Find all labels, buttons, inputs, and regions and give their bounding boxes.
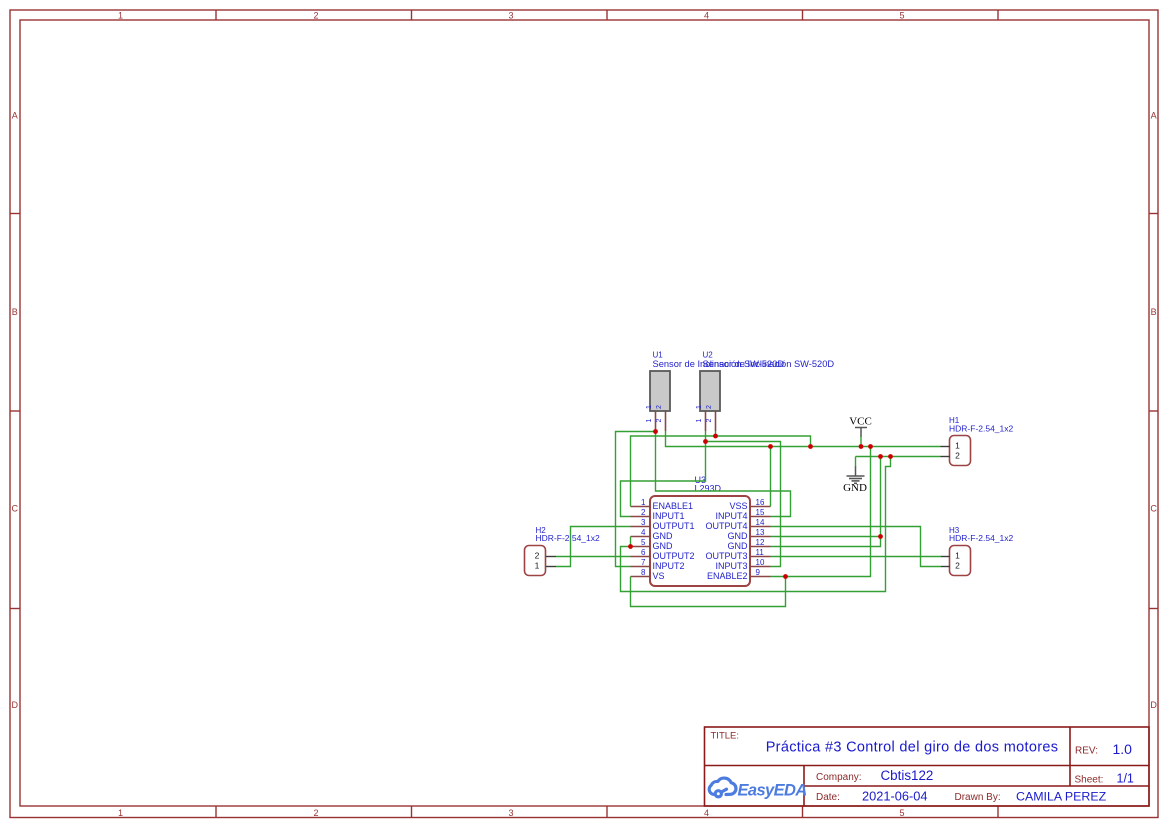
- svg-text:Sensor de Inclinación SW-520D: Sensor de Inclinación SW-520D: [703, 359, 835, 369]
- svg-text:B: B: [1151, 307, 1157, 317]
- H2 pin 1: [535, 561, 556, 571]
- wire GND rail to ground symbol: [855, 457, 857, 467]
- wire U3 OUTPUT4 to H3 pin2: [771, 527, 942, 567]
- op-amp driver IC U3 L293D body: [650, 475, 750, 586]
- svg-text:1: 1: [955, 551, 960, 561]
- svg-text:INPUT2: INPUT2: [653, 561, 685, 571]
- svg-text:OUTPUT1: OUTPUT1: [653, 521, 695, 531]
- svg-text:OUTPUT4: OUTPUT4: [705, 521, 747, 531]
- tilt sensor U2: [700, 351, 834, 412]
- svg-text:1: 1: [696, 405, 703, 409]
- junction GND pin13 tap: [878, 534, 883, 539]
- wire U3 GND pin4 drop: [630, 537, 632, 547]
- U3 pin 9 ENABLE2: [707, 568, 771, 581]
- U1 pin 1: [646, 405, 656, 431]
- U3 pin 7 INPUT2: [631, 558, 685, 571]
- junction GND pin12 riser on GND rail: [878, 454, 883, 459]
- svg-text:16: 16: [756, 498, 765, 507]
- U3 pin 15 INPUT4: [715, 508, 770, 521]
- svg-text:VS: VS: [653, 571, 665, 581]
- svg-text:1/1: 1/1: [1117, 772, 1134, 786]
- svg-text:A: A: [12, 111, 18, 121]
- svg-text:GND: GND: [653, 531, 674, 541]
- svg-text:Date:: Date:: [816, 792, 840, 803]
- U3 pin 12 GND: [728, 538, 771, 551]
- U3 pin 14 OUTPUT4: [705, 518, 770, 531]
- svg-text:C: C: [12, 504, 19, 514]
- U3 pin 13 GND: [728, 528, 771, 541]
- svg-text:5: 5: [899, 808, 904, 818]
- svg-text:7: 7: [641, 558, 646, 567]
- svg-text:4: 4: [704, 10, 709, 20]
- svg-text:HDR-F-2.54_1x2: HDR-F-2.54_1x2: [949, 424, 1014, 434]
- wire U3 ENABLE2 to VCC rail: [771, 447, 871, 577]
- U3 pin 8 VS: [631, 568, 665, 581]
- svg-text:3: 3: [508, 10, 513, 20]
- wire U3 ENABLE1 to U2 pin2 to VCC rail: [631, 436, 811, 507]
- svg-text:5: 5: [641, 538, 646, 547]
- svg-text:Company:: Company:: [816, 772, 862, 783]
- svg-text:Sheet:: Sheet:: [1075, 774, 1104, 785]
- junction GND left branch on GND rail: [888, 454, 893, 459]
- svg-text:2: 2: [313, 808, 318, 818]
- H2 pin 2: [535, 551, 556, 561]
- svg-text:1.0: 1.0: [1113, 741, 1133, 757]
- U2 pin 2: [706, 405, 716, 431]
- svg-text:VCC: VCC: [849, 416, 872, 428]
- svg-text:11: 11: [756, 548, 765, 557]
- svg-text:OUTPUT3: OUTPUT3: [705, 551, 747, 561]
- svg-text:14: 14: [756, 518, 765, 527]
- junction VSS on VCC rail: [768, 444, 773, 449]
- svg-text:1: 1: [535, 561, 540, 571]
- svg-text:Cbtis122: Cbtis122: [881, 768, 934, 783]
- U2 pin 1: [696, 405, 706, 431]
- wire U3 GND pin13 to GND drop: [771, 536, 881, 538]
- svg-text:1: 1: [646, 405, 653, 409]
- wire U2 pin1 to U3 INPUT3: [706, 442, 781, 567]
- junction U2 pin1 node: [703, 439, 708, 444]
- svg-text:C: C: [1150, 504, 1157, 514]
- svg-text:ENABLE2: ENABLE2: [707, 571, 748, 581]
- svg-text:2: 2: [656, 419, 663, 423]
- svg-text:OUTPUT2: OUTPUT2: [653, 551, 695, 561]
- svg-text:2: 2: [656, 405, 663, 409]
- svg-text:2021-06-04: 2021-06-04: [862, 789, 927, 804]
- svg-text:INPUT1: INPUT1: [653, 511, 685, 521]
- svg-text:5: 5: [899, 10, 904, 20]
- wire U2 pin2 stub: [715, 431, 717, 436]
- svg-text:2: 2: [313, 10, 318, 20]
- svg-text:9: 9: [756, 568, 761, 577]
- wire U3 OUTPUT3 to H3 pin1: [771, 556, 942, 558]
- U3 pin 4 GND: [631, 528, 674, 541]
- svg-text:2: 2: [535, 551, 540, 561]
- EasyEDA logo: [709, 778, 736, 797]
- U3 pin 11 OUTPUT3: [705, 548, 770, 561]
- junction U1 pin1 node: [653, 429, 658, 434]
- wire VCC rail: U1 pin2 to H1 pin1: [666, 431, 941, 447]
- junction U3 GND pin5 node: [628, 544, 633, 549]
- svg-text:Drawn By:: Drawn By:: [955, 792, 1001, 803]
- svg-text:GND: GND: [653, 541, 674, 551]
- svg-text:VSS: VSS: [729, 501, 747, 511]
- svg-text:8: 8: [641, 568, 646, 577]
- svg-text:1: 1: [696, 419, 703, 423]
- svg-text:1: 1: [955, 441, 960, 451]
- svg-text:ENABLE1: ENABLE1: [653, 501, 694, 511]
- svg-text:4: 4: [704, 808, 709, 818]
- svg-text:3: 3: [641, 518, 646, 527]
- junction U2 pin2 node: [713, 434, 718, 439]
- svg-text:Práctica #3 Control del giro d: Práctica #3 Control del giro de dos moto…: [766, 740, 1059, 756]
- svg-text:2: 2: [955, 561, 960, 571]
- header H1 HDR-F-2.54_1x2: [949, 416, 1014, 466]
- svg-text:REV:: REV:: [1075, 746, 1098, 757]
- svg-text:1: 1: [118, 10, 123, 20]
- wire U2 pin1 drop: [705, 431, 707, 442]
- H3 pin 2: [941, 561, 960, 571]
- wire U3 OUTPUT2 to H2 pin2: [556, 556, 631, 558]
- U3 pin 10 INPUT3: [715, 558, 770, 571]
- junction ENABLE2 riser on VCC rail: [868, 444, 873, 449]
- svg-text:6: 6: [641, 548, 646, 557]
- svg-text:EasyEDA: EasyEDA: [738, 782, 807, 800]
- U3 pin 2 INPUT1: [631, 508, 685, 521]
- svg-text:L293D: L293D: [695, 484, 722, 494]
- svg-text:D: D: [1150, 700, 1157, 710]
- wire VCC flag stem: [860, 437, 862, 447]
- H3 pin 1: [941, 551, 960, 561]
- svg-text:1: 1: [641, 498, 646, 507]
- wire U2 pin1 to U3 INPUT1: [621, 442, 706, 517]
- svg-text:10: 10: [756, 558, 765, 567]
- svg-text:1: 1: [118, 808, 123, 818]
- power flag VCC: [849, 416, 872, 438]
- wire U3 GND pin12 to GND rail: [771, 457, 881, 547]
- svg-text:2: 2: [955, 451, 960, 461]
- svg-text:TITLE:: TITLE:: [711, 731, 740, 742]
- svg-text:4: 4: [641, 528, 646, 537]
- wire GND rail to H1 pin2: [856, 456, 941, 458]
- header H3 HDR-F-2.54_1x2: [949, 526, 1014, 576]
- U3 pin 1 ENABLE1: [631, 498, 694, 511]
- svg-text:13: 13: [756, 528, 765, 537]
- wire U3 OUTPUT1 to H2 pin1: [556, 527, 631, 567]
- svg-text:HDR-F-2.54_1x2: HDR-F-2.54_1x2: [536, 533, 601, 543]
- U3 pin 6 OUTPUT2: [631, 548, 695, 561]
- U3 pin 16 VSS: [729, 498, 770, 511]
- svg-text:12: 12: [756, 538, 765, 547]
- junction ENABLE1 net on VCC rail: [808, 444, 813, 449]
- svg-text:GND: GND: [843, 482, 867, 494]
- svg-text:INPUT3: INPUT3: [715, 561, 747, 571]
- svg-text:2: 2: [641, 508, 646, 517]
- U3 pin 3 OUTPUT1: [631, 518, 695, 531]
- wire U3 GND pins4-5 to GND rail: [621, 457, 891, 592]
- svg-text:D: D: [12, 700, 19, 710]
- svg-text:2: 2: [706, 405, 713, 409]
- header H2 HDR-F-2.54_1x2: [525, 526, 601, 576]
- wire U1 pin1 to U3 INPUT2: [616, 432, 656, 567]
- tilt sensor U1: [650, 351, 784, 412]
- H1 pin 1: [941, 441, 961, 451]
- wire U3 VS to ENABLE2: [631, 577, 786, 607]
- title block: [705, 727, 1150, 806]
- H1 pin 2: [941, 451, 961, 461]
- wire U1 pin1 to U3 INPUT4: [656, 432, 791, 517]
- U1 pin 2: [656, 405, 666, 431]
- svg-text:INPUT4: INPUT4: [715, 511, 747, 521]
- svg-text:GND: GND: [728, 531, 749, 541]
- junction VCC flag on VCC rail: [859, 444, 864, 449]
- ground GND: [843, 466, 867, 494]
- svg-text:HDR-F-2.54_1x2: HDR-F-2.54_1x2: [949, 533, 1014, 543]
- svg-text:B: B: [12, 307, 18, 317]
- svg-text:1: 1: [646, 419, 653, 423]
- svg-text:15: 15: [756, 508, 765, 517]
- U3 pin 5 GND: [631, 538, 674, 551]
- svg-text:2: 2: [706, 419, 713, 423]
- svg-text:3: 3: [508, 808, 513, 818]
- svg-text:A: A: [1151, 111, 1157, 121]
- wire U3 VSS to VCC rail: [770, 447, 772, 507]
- svg-text:CAMILA PEREZ: CAMILA PEREZ: [1016, 790, 1107, 804]
- junction VS branch on ENABLE2 wire: [783, 574, 788, 579]
- svg-text:GND: GND: [728, 541, 749, 551]
